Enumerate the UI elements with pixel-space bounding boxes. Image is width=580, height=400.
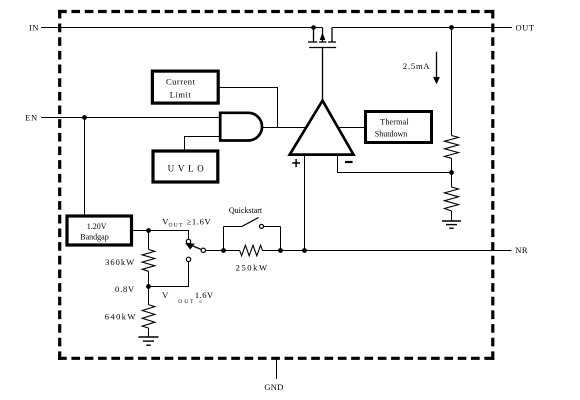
- svg-text:Bandgap: Bandgap: [80, 232, 108, 241]
- svg-text:Limit: Limit: [170, 89, 192, 99]
- svg-text:Quickstart: Quickstart: [229, 206, 263, 215]
- svg-text:IN: IN: [29, 23, 39, 33]
- svg-text:Shutdown: Shutdown: [375, 129, 407, 138]
- svg-text:250kW: 250kW: [236, 262, 269, 272]
- svg-text:2.5mA: 2.5mA: [403, 61, 430, 71]
- svg-text:EN: EN: [25, 113, 38, 123]
- svg-text:360kW: 360kW: [105, 257, 135, 267]
- svg-text:Current: Current: [166, 77, 196, 87]
- svg-text:GND: GND: [264, 382, 283, 392]
- svg-text:640kW: 640kW: [105, 311, 137, 321]
- svg-text:VOUT≥1.6V: VOUT≥1.6V: [162, 216, 211, 228]
- svg-text:NR: NR: [515, 245, 528, 255]
- svg-text:VOUT ≤1.6V: VOUT ≤1.6V: [162, 290, 214, 305]
- svg-text:U V L O: U V L O: [168, 163, 205, 173]
- svg-text:1.20V: 1.20V: [87, 222, 107, 231]
- svg-text:Thermal: Thermal: [380, 118, 409, 127]
- svg-text:OUT: OUT: [516, 22, 535, 32]
- svg-text:0.8V: 0.8V: [115, 284, 135, 294]
